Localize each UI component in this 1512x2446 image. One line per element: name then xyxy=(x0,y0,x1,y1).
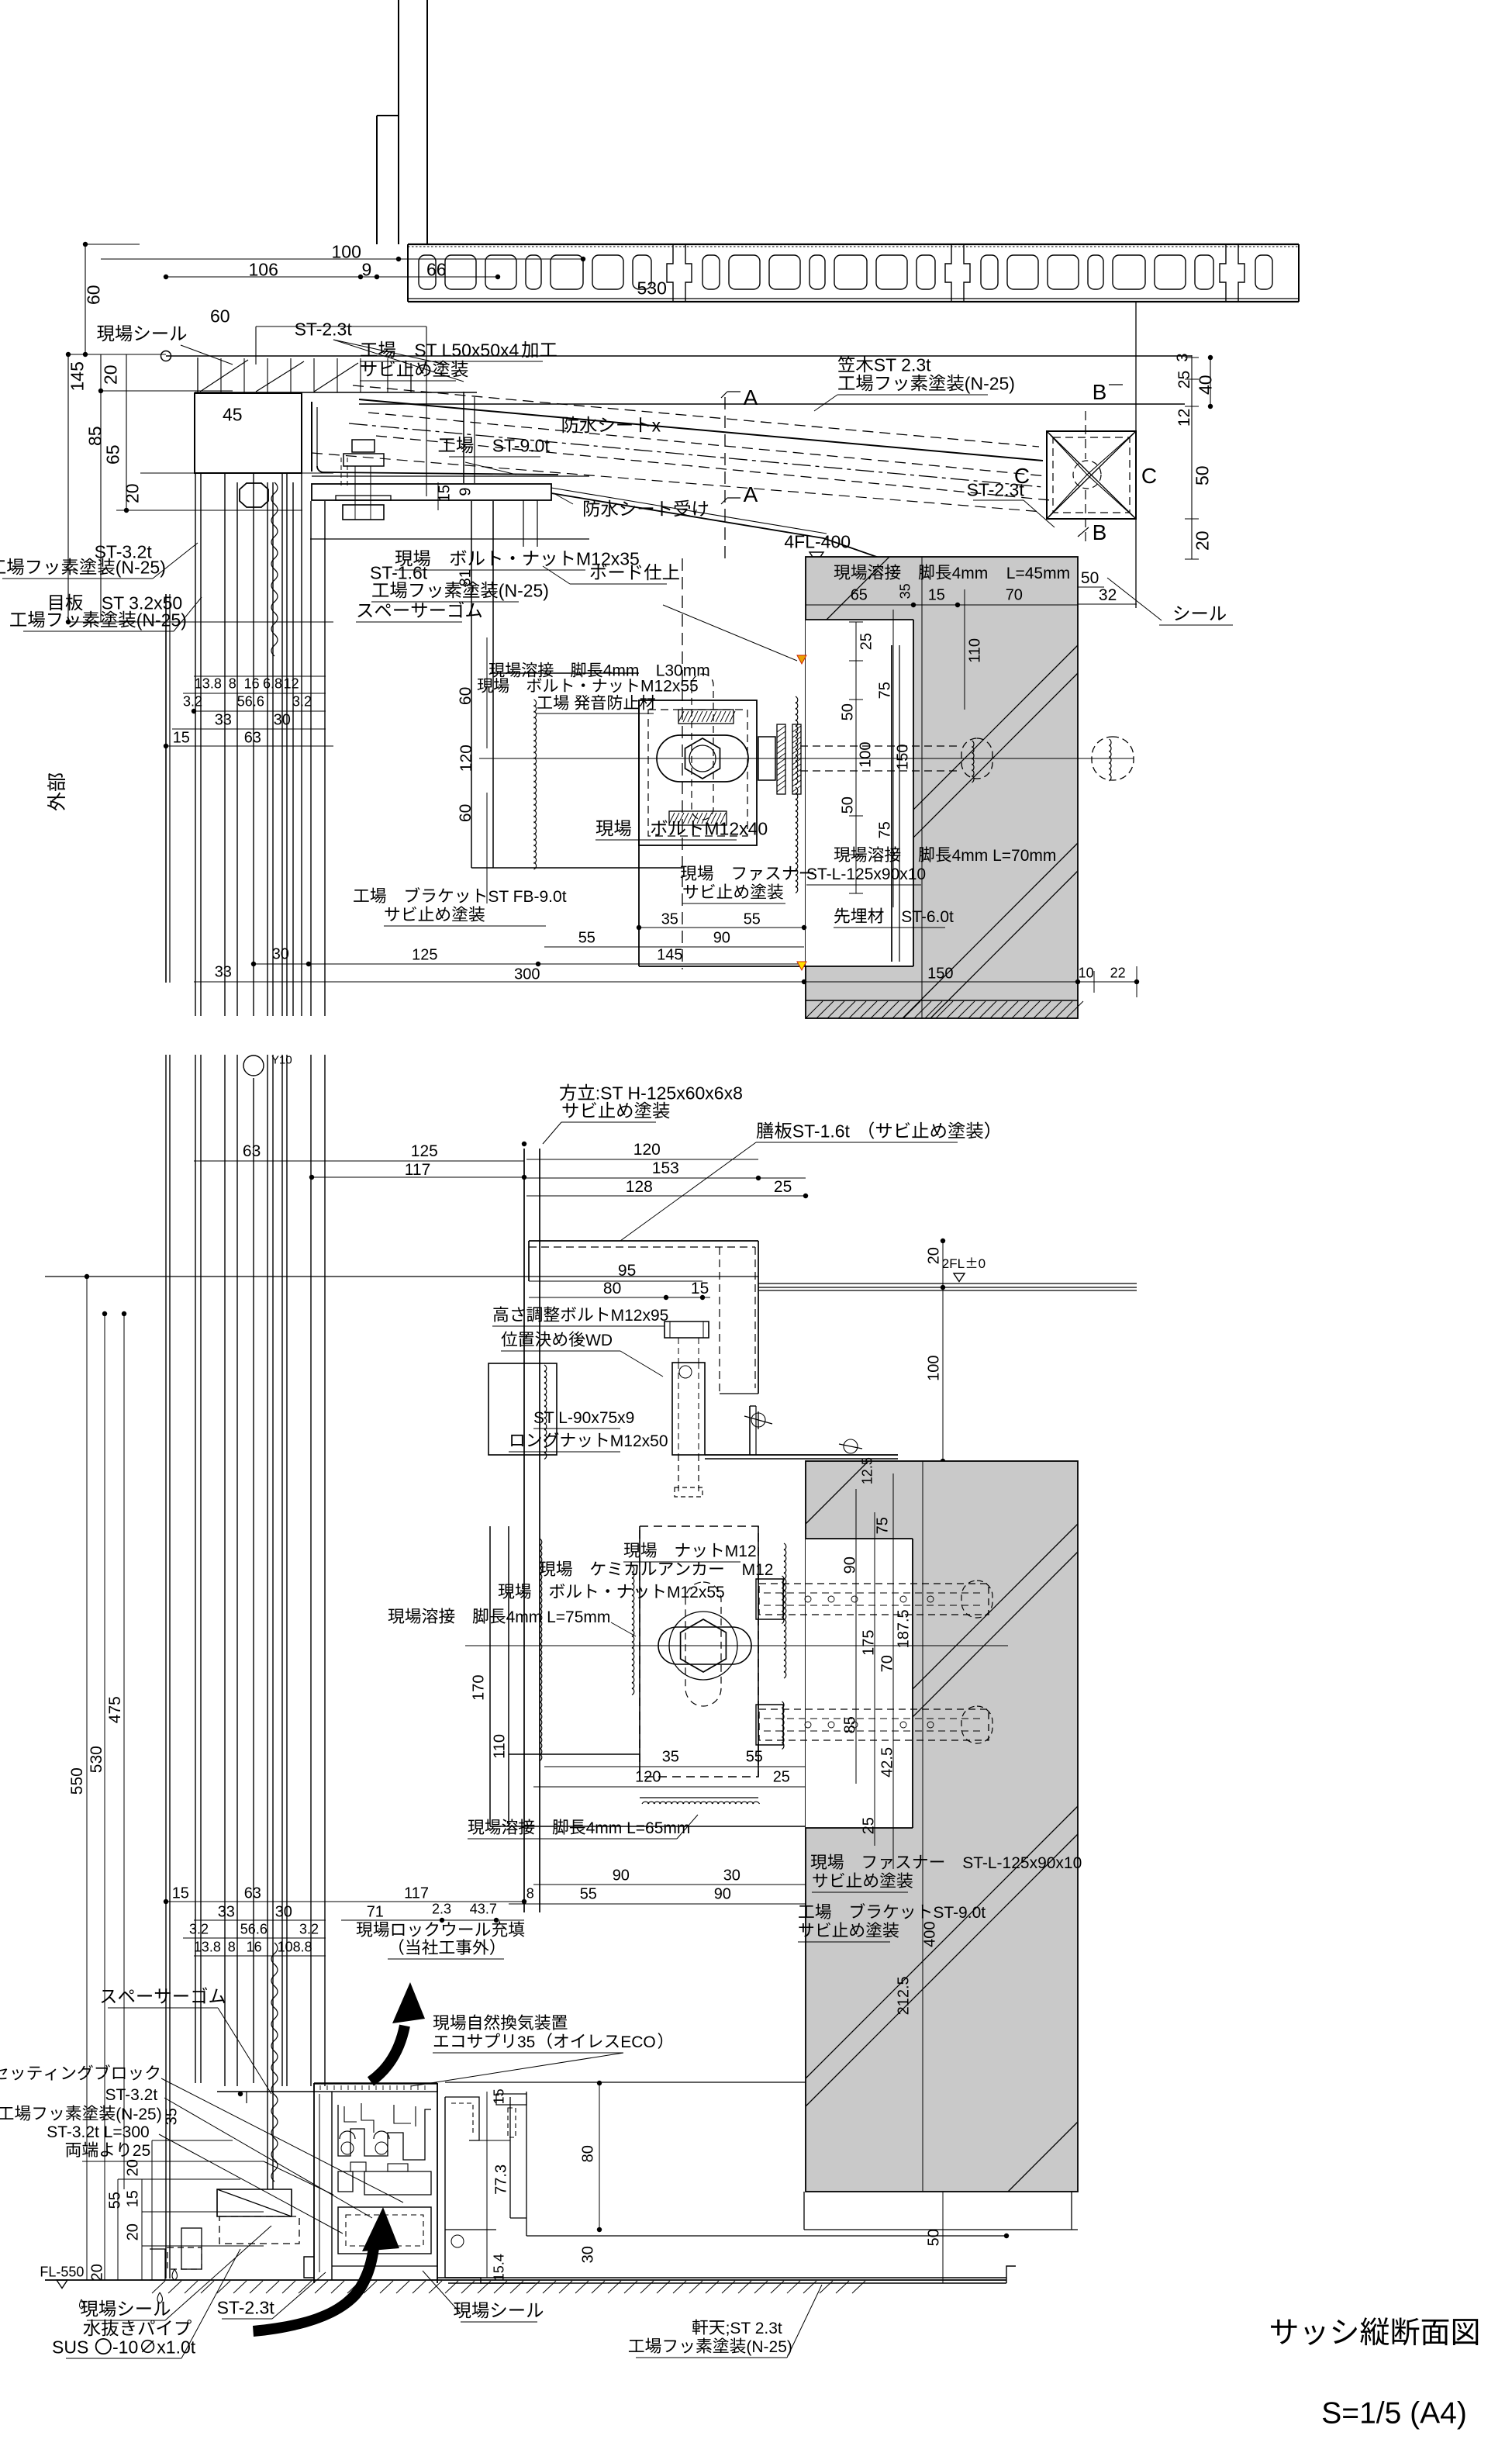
svg-text:M12: M12 xyxy=(742,1561,774,1579)
svg-text:77.3: 77.3 xyxy=(492,2164,509,2195)
svg-text:WD: WD xyxy=(585,1332,613,1349)
svg-text:B: B xyxy=(1093,520,1107,544)
svg-text:20: 20 xyxy=(925,1247,942,1264)
svg-text:;ST 2.3t: ;ST 2.3t xyxy=(726,2320,782,2337)
svg-text:4FL-400: 4FL-400 xyxy=(784,531,851,551)
svg-text:ST L-90x75x9: ST L-90x75x9 xyxy=(533,1409,634,1427)
svg-text:ST-9.0t: ST-9.0t xyxy=(933,1904,986,1922)
svg-text:4mm: 4mm xyxy=(603,662,640,680)
svg-text:(N-25): (N-25) xyxy=(116,2106,162,2123)
svg-text:15: 15 xyxy=(173,729,190,746)
svg-text:85: 85 xyxy=(841,1716,858,1733)
svg-text:212.5: 212.5 xyxy=(895,1976,912,2015)
svg-text:6.8: 6.8 xyxy=(263,676,282,692)
svg-text:110: 110 xyxy=(491,1734,508,1759)
svg-text:475: 475 xyxy=(106,1696,124,1723)
svg-text:33: 33 xyxy=(215,963,232,980)
svg-text:80: 80 xyxy=(603,1280,621,1297)
svg-text:65: 65 xyxy=(102,444,123,465)
svg-text:550: 550 xyxy=(68,1767,86,1795)
svg-text:M12x50: M12x50 xyxy=(610,1432,668,1450)
svg-text:530: 530 xyxy=(88,1746,105,1773)
svg-text:15: 15 xyxy=(124,2190,141,2207)
svg-text:13.8: 13.8 xyxy=(195,676,222,692)
svg-text:25: 25 xyxy=(773,1768,790,1785)
svg-text:ST L50x50x4: ST L50x50x4 xyxy=(414,340,519,360)
svg-text:120: 120 xyxy=(633,1141,661,1159)
svg-text:63: 63 xyxy=(244,1885,261,1902)
svg-text:35: 35 xyxy=(163,2108,180,2125)
svg-text:117: 117 xyxy=(404,1885,429,1902)
svg-text:30: 30 xyxy=(579,2246,596,2263)
svg-text:50: 50 xyxy=(1192,465,1212,485)
svg-text:300: 300 xyxy=(514,966,540,983)
svg-text:20: 20 xyxy=(124,2223,141,2240)
svg-text:Y10: Y10 xyxy=(271,1054,292,1067)
svg-text:15: 15 xyxy=(436,485,453,502)
svg-text:25: 25 xyxy=(133,2142,150,2160)
svg-text:3: 3 xyxy=(1174,353,1191,361)
svg-text:9: 9 xyxy=(457,487,474,496)
svg-text:2.3: 2.3 xyxy=(432,1902,451,1917)
svg-text:9: 9 xyxy=(362,259,372,279)
svg-text:L=45mm: L=45mm xyxy=(1006,565,1070,582)
svg-text:(N-25): (N-25) xyxy=(746,2338,792,2356)
svg-text:8: 8 xyxy=(229,676,236,692)
svg-text:20: 20 xyxy=(124,2159,141,2176)
svg-text:20: 20 xyxy=(88,2264,105,2281)
svg-text::ST H-125x60x6x8: :ST H-125x60x6x8 xyxy=(595,1083,743,1103)
svg-text:90: 90 xyxy=(713,929,730,946)
svg-text:ST-2.3t: ST-2.3t xyxy=(967,479,1025,499)
svg-text:12.5: 12.5 xyxy=(860,1457,875,1484)
svg-text:80: 80 xyxy=(579,2145,596,2162)
svg-text:35: 35 xyxy=(898,583,913,599)
svg-text:153: 153 xyxy=(652,1159,679,1177)
svg-text:71: 71 xyxy=(367,1903,384,1920)
svg-text:4mm L=75mm: 4mm L=75mm xyxy=(506,1608,611,1626)
svg-text:(N-25): (N-25) xyxy=(499,580,549,600)
svg-text:3.2: 3.2 xyxy=(183,694,202,710)
svg-text:35: 35 xyxy=(661,910,678,928)
svg-text:95: 95 xyxy=(618,1262,636,1280)
svg-text:55: 55 xyxy=(746,1748,763,1765)
svg-text:3.2: 3.2 xyxy=(189,1922,209,1937)
svg-text:25: 25 xyxy=(774,1178,792,1196)
svg-text:M12: M12 xyxy=(725,1543,757,1560)
svg-text:110: 110 xyxy=(966,638,983,663)
svg-text:50: 50 xyxy=(839,703,856,720)
svg-text:145: 145 xyxy=(67,361,87,391)
svg-text:15: 15 xyxy=(691,1280,709,1297)
svg-text:70: 70 xyxy=(879,1655,896,1672)
svg-text:15: 15 xyxy=(928,586,945,603)
svg-text:ST-9.0t: ST-9.0t xyxy=(492,435,551,455)
svg-text:56.6: 56.6 xyxy=(237,694,264,710)
svg-text:M12x55: M12x55 xyxy=(640,678,699,696)
svg-text:100: 100 xyxy=(857,742,874,768)
svg-text:70: 70 xyxy=(1006,586,1023,603)
svg-text:M12x55: M12x55 xyxy=(667,1584,725,1601)
svg-text:13.8: 13.8 xyxy=(194,1940,221,1955)
svg-text:15.4: 15.4 xyxy=(492,2254,507,2281)
svg-text:10: 10 xyxy=(1079,966,1094,981)
svg-text:60: 60 xyxy=(457,804,475,822)
svg-text:ST-3.2t L=300: ST-3.2t L=300 xyxy=(47,2123,150,2141)
svg-text:40: 40 xyxy=(1195,375,1215,395)
svg-text:15: 15 xyxy=(492,2088,507,2104)
svg-text:50: 50 xyxy=(925,2229,942,2246)
svg-text:12: 12 xyxy=(1175,409,1193,427)
svg-text:75: 75 xyxy=(874,1517,891,1534)
svg-text:16: 16 xyxy=(244,676,260,692)
svg-text:35: 35 xyxy=(517,2033,535,2051)
svg-text:ST-2.3t: ST-2.3t xyxy=(217,2297,275,2317)
svg-text:ECO: ECO xyxy=(620,2033,656,2051)
svg-text:33: 33 xyxy=(215,711,232,728)
svg-text:55: 55 xyxy=(106,2192,123,2209)
svg-text:ST FB-9.0t: ST FB-9.0t xyxy=(488,888,566,906)
svg-text:75: 75 xyxy=(876,682,893,699)
svg-text:ST-3.2t: ST-3.2t xyxy=(105,2086,158,2104)
svg-text:4mm: 4mm xyxy=(952,565,989,582)
svg-text:400: 400 xyxy=(921,1922,938,1947)
svg-text:55: 55 xyxy=(580,1885,597,1902)
svg-text:0: 0 xyxy=(979,1256,986,1271)
svg-text:20: 20 xyxy=(100,364,120,385)
svg-text:ST-6.0t: ST-6.0t xyxy=(901,908,954,926)
svg-text:ST-L-125x90x10: ST-L-125x90x10 xyxy=(962,1854,1082,1872)
svg-text:B: B xyxy=(1093,380,1107,404)
svg-text:4mm L=65mm: 4mm L=65mm xyxy=(586,1819,691,1837)
svg-text:15: 15 xyxy=(172,1885,189,1902)
svg-text:ST-L-125x90x10: ST-L-125x90x10 xyxy=(806,865,926,883)
svg-text:-10: -10 xyxy=(112,2337,138,2357)
svg-text:25: 25 xyxy=(860,1817,877,1834)
svg-text:30: 30 xyxy=(272,945,289,962)
svg-text:60: 60 xyxy=(83,285,103,305)
svg-text:33: 33 xyxy=(218,1903,235,1920)
svg-text:50: 50 xyxy=(839,796,856,814)
svg-text:63: 63 xyxy=(244,729,261,746)
svg-text:x1.0t: x1.0t xyxy=(157,2337,195,2357)
svg-text:65: 65 xyxy=(851,586,868,603)
svg-text:30: 30 xyxy=(723,1867,740,1884)
svg-text:530: 530 xyxy=(637,278,667,298)
svg-text:25: 25 xyxy=(1175,371,1193,389)
svg-text:M12x35: M12x35 xyxy=(576,548,640,568)
svg-text:ST-1.6t: ST-1.6t xyxy=(370,562,428,582)
svg-text:60: 60 xyxy=(210,306,230,326)
svg-text:43.7: 43.7 xyxy=(470,1902,497,1917)
svg-text:125: 125 xyxy=(412,946,437,963)
svg-text:100: 100 xyxy=(925,1356,942,1381)
svg-text:90: 90 xyxy=(714,1885,731,1902)
svg-text:175: 175 xyxy=(860,1630,877,1656)
svg-text:81: 81 xyxy=(457,569,474,586)
svg-text:4mm L=70mm: 4mm L=70mm xyxy=(952,847,1057,865)
svg-text:8: 8 xyxy=(526,1886,534,1902)
svg-text:120: 120 xyxy=(635,1768,661,1785)
svg-text:90: 90 xyxy=(613,1867,630,1884)
svg-text:106: 106 xyxy=(249,259,278,279)
svg-text:90: 90 xyxy=(841,1556,858,1574)
svg-text:12: 12 xyxy=(284,676,299,692)
svg-text:187.5: 187.5 xyxy=(895,1609,912,1648)
svg-text:55: 55 xyxy=(578,929,595,946)
svg-text:63: 63 xyxy=(243,1142,261,1160)
svg-text:(N-25): (N-25) xyxy=(136,610,187,630)
svg-text:100: 100 xyxy=(332,241,361,261)
svg-text:2FL: 2FL xyxy=(942,1256,965,1271)
svg-text:M12x95: M12x95 xyxy=(611,1307,669,1325)
svg-text:85: 85 xyxy=(85,426,105,446)
svg-text:45: 45 xyxy=(223,404,243,424)
svg-text:x: x xyxy=(652,415,661,435)
svg-text:FL-550: FL-550 xyxy=(40,2265,84,2280)
svg-text:56.6: 56.6 xyxy=(240,1922,268,1937)
svg-text:60: 60 xyxy=(457,687,475,705)
svg-text:117: 117 xyxy=(405,1161,430,1179)
svg-text:M12x40: M12x40 xyxy=(704,818,768,838)
svg-text:ST-2.3t: ST-2.3t xyxy=(295,319,353,339)
svg-text:30: 30 xyxy=(274,711,291,728)
svg-text:(N-25): (N-25) xyxy=(965,373,1015,393)
svg-text:145: 145 xyxy=(657,946,682,963)
svg-text:128: 128 xyxy=(626,1178,653,1196)
svg-text:125: 125 xyxy=(411,1142,438,1160)
svg-text:75: 75 xyxy=(876,821,893,838)
svg-text:30: 30 xyxy=(275,1903,292,1920)
svg-text:3.2: 3.2 xyxy=(299,1922,319,1937)
svg-text:25: 25 xyxy=(858,633,875,650)
svg-text:16: 16 xyxy=(247,1940,262,1955)
svg-text:C: C xyxy=(1141,464,1157,488)
svg-text:S=1/5 (A4): S=1/5 (A4) xyxy=(1321,2396,1467,2430)
svg-text:20: 20 xyxy=(1192,530,1212,551)
svg-text:108.8: 108.8 xyxy=(278,1940,312,1955)
svg-text:42.5: 42.5 xyxy=(879,1747,896,1777)
svg-text:120: 120 xyxy=(457,745,475,772)
svg-text:ST 2.3t: ST 2.3t xyxy=(874,354,931,375)
svg-text:55: 55 xyxy=(744,910,761,928)
svg-text:A: A xyxy=(744,385,758,409)
svg-text:35: 35 xyxy=(662,1748,679,1765)
svg-text:50: 50 xyxy=(1081,569,1099,587)
svg-text:20: 20 xyxy=(122,483,142,503)
svg-text:ST-1.6t: ST-1.6t xyxy=(792,1121,851,1141)
svg-text:3.2: 3.2 xyxy=(292,694,312,710)
svg-text:A: A xyxy=(744,482,758,506)
svg-text:170: 170 xyxy=(470,1675,487,1701)
svg-text:32: 32 xyxy=(1099,586,1117,604)
svg-text:150: 150 xyxy=(927,965,953,982)
svg-text:66: 66 xyxy=(426,259,447,279)
svg-text:8: 8 xyxy=(228,1940,236,1955)
svg-text:SUS: SUS xyxy=(52,2337,88,2357)
svg-text:150: 150 xyxy=(894,745,911,770)
svg-text:22: 22 xyxy=(1110,966,1126,981)
